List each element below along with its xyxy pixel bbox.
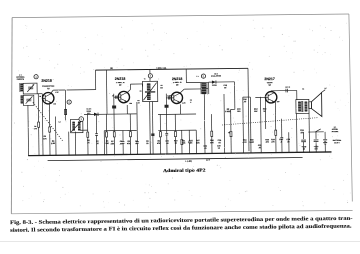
wire T1 to ground bus left xyxy=(68,132,70,155)
transistor Q3 2N218 xyxy=(171,92,183,104)
svg-text:Admiral tipo 4P2: Admiral tipo 4P2 xyxy=(163,169,206,175)
svg-text:C17 22: C17 22 xyxy=(285,87,290,89)
wire Q3 base stub xyxy=(166,97,173,99)
svg-text:220: 220 xyxy=(129,103,132,105)
wire Q3 collector to T2 xyxy=(180,89,185,93)
svg-text:T3: T3 xyxy=(302,89,304,91)
wire T3 to speaker xyxy=(308,113,310,152)
wire oscillator coil to T1 xyxy=(65,115,67,120)
inductor L1 winding lower xyxy=(20,95,23,103)
svg-text:Q1: Q1 xyxy=(47,88,49,90)
wire Q4 base network xyxy=(255,96,268,98)
wire T2 secondary to bus xyxy=(203,94,206,153)
svg-text:DA 9 V: DA 9 V xyxy=(334,141,340,144)
capacitor C7A electrolytic blob xyxy=(112,105,116,108)
battery B1 9V xyxy=(324,132,326,139)
svg-text:R1: R1 xyxy=(34,126,36,128)
switch S1 xyxy=(308,131,323,133)
node 4 stage marker xyxy=(149,69,151,81)
capacitor C7 base xyxy=(115,96,117,99)
wire Q3 emitter xyxy=(179,104,181,114)
wire top bus drop T2 xyxy=(185,69,187,83)
svg-text:250: 250 xyxy=(237,111,240,113)
svg-text:.05: .05 xyxy=(258,147,261,149)
svg-text:.01: .01 xyxy=(39,96,41,98)
svg-text:S 1: S 1 xyxy=(334,127,337,129)
scan speckle xyxy=(121,48,124,51)
wire agc dashed line xyxy=(222,118,318,125)
wire mid rail2 left xyxy=(104,129,136,131)
svg-text:Q2: Q2 xyxy=(119,85,121,87)
rule under figure xyxy=(11,210,352,213)
svg-text:100K: 100K xyxy=(250,142,255,144)
node 2 stage marker xyxy=(67,100,71,104)
wire mid rail right xyxy=(158,113,196,115)
wire T1IF secondary down xyxy=(149,102,152,155)
svg-text:50: 50 xyxy=(224,87,226,89)
capacitor C1A tuning loop xyxy=(23,83,37,94)
page crease line xyxy=(0,241,360,243)
svg-text:5: 5 xyxy=(190,102,191,104)
svg-text:.01: .01 xyxy=(204,148,207,150)
wire detector output xyxy=(216,81,235,83)
wire mid rail left xyxy=(84,113,136,116)
wire Q4 emitter xyxy=(274,102,276,113)
svg-text:.02: .02 xyxy=(218,142,221,144)
wire Q1 collector to oscillator xyxy=(50,90,53,94)
wire top supply bus xyxy=(95,68,247,70)
transistor Q1 2N218 xyxy=(42,92,54,104)
node 5 stage marker xyxy=(201,74,205,78)
wire T1 to ground bus right xyxy=(74,132,76,155)
transformer T1IF box xyxy=(142,81,157,101)
svg-text:C9: C9 xyxy=(190,100,192,102)
svg-text:L (−9V): L (−9V) xyxy=(185,161,192,163)
svg-text:470: 470 xyxy=(266,141,269,144)
border frame left xyxy=(10,18,13,214)
wire agc drop xyxy=(223,94,226,153)
svg-text:1 MF: 1 MF xyxy=(167,95,171,97)
wire bottom ground bus xyxy=(29,152,332,156)
svg-text:.05: .05 xyxy=(244,101,247,103)
speaker SP xyxy=(309,102,312,109)
node 3 stage marker xyxy=(79,117,84,122)
svg-text:C8: C8 xyxy=(137,100,139,102)
inductor L1 winding upper xyxy=(20,83,23,91)
svg-text:T 2: T 2 xyxy=(196,76,198,78)
svg-text:270: 270 xyxy=(271,142,274,144)
svg-text:CR 1: CR 1 xyxy=(214,73,218,75)
transformer T1 oscillator box xyxy=(70,119,82,132)
wire top bus drop left end xyxy=(94,70,96,89)
svg-text:INTERR.: INTERR. xyxy=(332,129,339,131)
wire top bus right drop xyxy=(248,68,249,151)
diode CR2 on rail xyxy=(94,113,98,116)
wire antenna to ground bus xyxy=(27,105,30,155)
svg-text:1 MED. CAS.: 1 MED. CAS. xyxy=(156,67,167,70)
wire gang link dashed xyxy=(33,102,63,142)
wire Q1 bias to bus xyxy=(41,98,44,155)
caption text xyxy=(10,216,353,234)
svg-text:10: 10 xyxy=(218,148,220,150)
svg-text:2N218: 2N218 xyxy=(172,77,183,81)
svg-text:2N218: 2N218 xyxy=(41,79,52,83)
svg-text:2N218: 2N218 xyxy=(115,77,126,81)
wire Q2 collector to T1IF xyxy=(127,89,131,93)
svg-text:2N217: 2N217 xyxy=(264,77,275,81)
svg-text:100: 100 xyxy=(277,101,280,103)
svg-text:Q4: Q4 xyxy=(268,83,270,86)
svg-text:C8: C8 xyxy=(160,85,162,87)
wire Q2 base stub xyxy=(114,96,121,98)
wire Q2 emitter xyxy=(126,105,128,114)
capacitor C10 base xyxy=(167,96,169,99)
wire antenna to Q1 base xyxy=(37,93,42,95)
wire battery-minus bus LINEA B xyxy=(48,158,303,161)
border frame right xyxy=(349,14,352,202)
bus junction dots xyxy=(28,155,29,156)
capacitor C10A electrolytic blob xyxy=(165,105,169,108)
transistor Q2 2N218 xyxy=(118,91,130,103)
svg-text:220: 220 xyxy=(53,104,56,106)
wire Q4 collector to T3 xyxy=(270,90,272,93)
svg-text:C8: C8 xyxy=(140,91,142,93)
svg-text:50: 50 xyxy=(146,143,148,145)
node 1 stage marker xyxy=(34,75,38,79)
svg-text:1N295: 1N295 xyxy=(212,85,217,87)
svg-text:T1: T1 xyxy=(144,78,146,80)
wire mid rail2 right xyxy=(158,129,196,131)
border frame top xyxy=(12,14,349,18)
svg-text:SERIE: SERIE xyxy=(87,111,92,113)
svg-text:3.9K: 3.9K xyxy=(51,143,56,145)
capacitor C1B oscillator gang loop xyxy=(23,95,34,105)
wire top bus drop R5 xyxy=(105,70,108,114)
svg-text:Q3: Q3 xyxy=(176,84,178,86)
diode CR1 1N295 xyxy=(212,80,216,83)
svg-text:(B): (B) xyxy=(110,68,113,70)
svg-text:L2: L2 xyxy=(59,121,61,123)
svg-text:120: 120 xyxy=(160,87,163,89)
svg-text:FERRITE: FERRITE xyxy=(17,79,25,81)
transistor Q4 2N217 xyxy=(265,92,277,104)
transformer T2 windings xyxy=(201,82,209,84)
svg-text:.01: .01 xyxy=(112,95,114,97)
svg-text:1 MF: 1 MF xyxy=(55,92,59,94)
